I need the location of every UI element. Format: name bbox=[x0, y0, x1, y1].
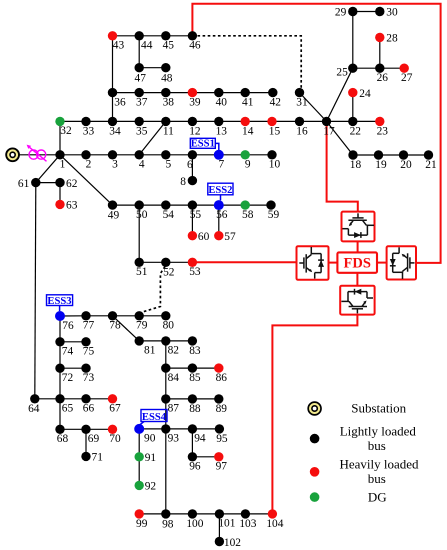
bus 11 bbox=[161, 117, 174, 138]
wire 58-59 bbox=[245, 204, 271, 206]
wire 17-18 bbox=[327, 121, 354, 155]
bus 8 bbox=[180, 176, 197, 188]
wire 31-17 bbox=[300, 93, 327, 122]
FDS box bbox=[337, 252, 377, 272]
transformer with OLTC arrow bbox=[27, 145, 47, 162]
bus 30 bbox=[375, 7, 398, 19]
svg-text:22: 22 bbox=[350, 125, 362, 137]
bus 84 bbox=[161, 363, 179, 384]
svg-text:19: 19 bbox=[375, 159, 387, 171]
wire 87-88 bbox=[166, 398, 193, 400]
bus 73 bbox=[81, 364, 94, 385]
wire 84-87 bbox=[165, 368, 167, 399]
wire 6-8 bbox=[191, 155, 193, 181]
wire 61-62 bbox=[36, 182, 60, 184]
wire 84-85 bbox=[166, 367, 193, 369]
svg-text:10: 10 bbox=[269, 159, 281, 171]
svg-text:29: 29 bbox=[335, 7, 347, 19]
wire 28-26 bbox=[379, 37, 381, 68]
bus 19 bbox=[374, 150, 387, 171]
bus 78 bbox=[108, 311, 121, 332]
bus 28 bbox=[375, 33, 398, 45]
svg-text:86: 86 bbox=[216, 372, 228, 384]
svg-text:71: 71 bbox=[92, 452, 104, 464]
svg-text:30: 30 bbox=[386, 7, 398, 19]
svg-text:89: 89 bbox=[216, 403, 228, 415]
bus 10 bbox=[267, 150, 280, 171]
wire 85-86 bbox=[192, 367, 218, 369]
bus 67 bbox=[108, 394, 121, 415]
wire 3-4 bbox=[113, 154, 140, 156]
wire 74-72 bbox=[59, 342, 61, 368]
bus 40 bbox=[214, 88, 227, 109]
wire 11-12 bbox=[166, 120, 193, 122]
svg-text:17: 17 bbox=[323, 125, 335, 137]
svg-text:75: 75 bbox=[83, 346, 95, 358]
bus 56 bbox=[214, 200, 228, 221]
bus 100 bbox=[186, 509, 203, 530]
wire 81-82 bbox=[139, 340, 166, 342]
bus 21 bbox=[424, 150, 437, 171]
wire 43-36 bbox=[112, 36, 114, 93]
converter VSC4 (right): red box bbox=[387, 246, 416, 279]
wire 94-95 bbox=[192, 428, 219, 430]
svg-text:4: 4 bbox=[139, 159, 145, 171]
wire substation-1 bbox=[19, 154, 61, 156]
svg-text:FDS: FDS bbox=[343, 255, 370, 271]
legend: DG bbox=[310, 490, 387, 505]
svg-text:31: 31 bbox=[296, 97, 308, 109]
bus 34 bbox=[108, 117, 121, 138]
bus 46 bbox=[188, 31, 201, 52]
wire 77-78 bbox=[86, 315, 113, 317]
wire 29-25 bbox=[352, 12, 354, 69]
svg-text:66: 66 bbox=[83, 403, 95, 415]
svg-text:93: 93 bbox=[168, 433, 180, 445]
wire 22-23 bbox=[353, 120, 380, 122]
svg-text:13: 13 bbox=[216, 125, 228, 137]
bus 86 bbox=[214, 363, 227, 384]
bus 104 bbox=[266, 509, 283, 530]
svg-text:48: 48 bbox=[161, 72, 173, 84]
svg-text:49: 49 bbox=[108, 210, 120, 222]
wire 16-17 bbox=[300, 120, 327, 122]
svg-text:64: 64 bbox=[28, 403, 40, 415]
bus 16 bbox=[295, 117, 308, 138]
wire 39-40 bbox=[192, 92, 218, 94]
wire 79-80 bbox=[139, 315, 166, 317]
svg-text:1: 1 bbox=[60, 159, 66, 171]
bus 35 bbox=[135, 117, 148, 138]
bus 45 bbox=[161, 31, 174, 52]
bus 61 bbox=[18, 178, 41, 190]
bus 92 bbox=[135, 481, 157, 493]
bus 58 bbox=[241, 200, 254, 221]
bus 63 bbox=[55, 200, 77, 212]
bus 50 bbox=[135, 200, 148, 221]
svg-text:23: 23 bbox=[377, 125, 389, 137]
svg-text:87: 87 bbox=[168, 403, 180, 415]
svg-text:78: 78 bbox=[109, 320, 121, 332]
converter VSC1 (top): red box bbox=[342, 212, 375, 242]
bus 32 bbox=[55, 117, 72, 137]
svg-text:56: 56 bbox=[216, 209, 228, 221]
bus 89 bbox=[214, 394, 227, 415]
red feeder: bus 17 to converter VSC1 (top) bbox=[327, 121, 358, 211]
wire 90-91 bbox=[138, 429, 140, 457]
wire 76-74 bbox=[59, 316, 61, 342]
wire 12-13 bbox=[192, 120, 218, 122]
svg-text:63: 63 bbox=[66, 200, 78, 212]
svg-text:60: 60 bbox=[198, 231, 210, 243]
red feeder: converter VSC3 (bottom) to bus 104 bbox=[272, 315, 357, 514]
svg-text:73: 73 bbox=[83, 372, 95, 384]
svg-text:21: 21 bbox=[425, 159, 437, 171]
wire 37-38 bbox=[139, 92, 166, 94]
wire 32-1 bbox=[59, 121, 61, 154]
svg-text:34: 34 bbox=[109, 125, 121, 137]
svg-text:94: 94 bbox=[194, 433, 206, 445]
svg-text:61: 61 bbox=[18, 178, 30, 190]
wire 44-47 bbox=[138, 36, 140, 68]
wire 69-71 bbox=[85, 429, 87, 456]
svg-text:92: 92 bbox=[145, 481, 157, 493]
svg-text:9: 9 bbox=[245, 159, 251, 171]
legend: substation symbol bbox=[308, 402, 321, 415]
wire 9-10 bbox=[245, 154, 272, 156]
wire 51-52 bbox=[139, 261, 166, 263]
svg-text:79: 79 bbox=[136, 320, 148, 332]
svg-text:76: 76 bbox=[62, 320, 74, 332]
svg-text:37: 37 bbox=[136, 97, 148, 109]
bus 27 bbox=[400, 63, 413, 84]
wire FDS-VSC3 bbox=[356, 273, 358, 286]
svg-text:39: 39 bbox=[189, 97, 201, 109]
svg-text:97: 97 bbox=[216, 461, 228, 473]
wire 43-44 bbox=[113, 35, 140, 37]
wire 38-39 bbox=[166, 92, 193, 94]
bus 96 bbox=[188, 452, 201, 473]
wire 78-79 bbox=[113, 315, 140, 317]
ESS1 bbox=[190, 138, 219, 150]
wire 103-104 bbox=[245, 513, 272, 515]
wire 13-14 bbox=[219, 120, 245, 122]
svg-text:bus: bus bbox=[368, 438, 386, 453]
bus 64 bbox=[28, 394, 40, 415]
bus 49 bbox=[108, 200, 120, 221]
bus 41 bbox=[241, 88, 254, 109]
bus 18 bbox=[348, 150, 361, 171]
svg-text:2: 2 bbox=[86, 159, 92, 171]
svg-text:ESS1: ESS1 bbox=[191, 139, 215, 150]
legend: lightly loaded bus bbox=[310, 423, 417, 453]
svg-text:54: 54 bbox=[163, 209, 175, 221]
svg-text:28: 28 bbox=[386, 33, 398, 45]
wire 34-35 bbox=[113, 120, 140, 122]
wire 82-83 bbox=[166, 340, 193, 342]
svg-text:88: 88 bbox=[189, 403, 201, 415]
svg-text:DG: DG bbox=[368, 490, 387, 505]
bus 99 bbox=[135, 509, 148, 530]
wire 93-98 bbox=[165, 429, 167, 514]
bus 6 bbox=[187, 150, 197, 171]
bus 24 bbox=[348, 88, 371, 100]
ESS2 bbox=[208, 183, 233, 200]
wire 90-93 bbox=[139, 428, 166, 430]
svg-text:85: 85 bbox=[189, 372, 201, 384]
converter VSC2 (left): IGBT symbol bbox=[299, 247, 324, 279]
wire 101-103 bbox=[219, 513, 245, 515]
bus 94 bbox=[188, 424, 206, 445]
wire 41-42 bbox=[245, 92, 273, 94]
bus 5 bbox=[161, 150, 171, 171]
wire FDS-VSC1 bbox=[357, 241, 359, 252]
svg-text:70: 70 bbox=[109, 433, 121, 445]
bus 103 bbox=[239, 509, 256, 530]
wire 1-2 bbox=[60, 154, 86, 156]
svg-text:32: 32 bbox=[60, 125, 72, 137]
bus 65 bbox=[55, 394, 73, 415]
svg-text:24: 24 bbox=[359, 88, 371, 100]
svg-text:55: 55 bbox=[190, 209, 202, 221]
bus 1 bbox=[55, 150, 65, 171]
svg-text:104: 104 bbox=[266, 518, 283, 530]
wire 4-11 bbox=[139, 121, 166, 154]
svg-text:38: 38 bbox=[163, 97, 175, 109]
svg-text:41: 41 bbox=[242, 97, 254, 109]
bus 101 bbox=[215, 509, 236, 530]
bus 31 bbox=[295, 88, 308, 109]
svg-text:103: 103 bbox=[239, 518, 256, 530]
wire 94-96 bbox=[191, 429, 193, 457]
wire 76-77 bbox=[60, 315, 86, 317]
bus 62 bbox=[55, 178, 77, 190]
bus 79 bbox=[135, 311, 148, 332]
wire 40-41 bbox=[219, 92, 245, 94]
wire 65-68 bbox=[59, 399, 61, 430]
svg-text:35: 35 bbox=[136, 125, 148, 137]
bus 43 bbox=[108, 31, 125, 52]
bus 97 bbox=[214, 452, 227, 473]
svg-text:44: 44 bbox=[141, 40, 153, 52]
svg-text:25: 25 bbox=[336, 67, 348, 79]
bus 93 bbox=[161, 424, 179, 445]
svg-text:72: 72 bbox=[62, 372, 74, 384]
bus 9 bbox=[241, 150, 251, 171]
wire 2-3 bbox=[86, 154, 113, 156]
svg-text:68: 68 bbox=[57, 433, 69, 445]
svg-text:16: 16 bbox=[296, 125, 308, 137]
bus 76 bbox=[55, 311, 74, 332]
converter VSC3 (bottom): IGBT symbol bbox=[341, 289, 373, 314]
svg-text:33: 33 bbox=[83, 125, 95, 137]
svg-text:3: 3 bbox=[112, 159, 118, 171]
svg-text:42: 42 bbox=[270, 97, 282, 109]
svg-text:58: 58 bbox=[242, 209, 254, 221]
bus 95 bbox=[215, 424, 228, 445]
svg-text:27: 27 bbox=[401, 72, 413, 84]
svg-text:7: 7 bbox=[218, 159, 224, 171]
svg-text:46: 46 bbox=[189, 40, 201, 52]
svg-text:99: 99 bbox=[136, 518, 148, 530]
wire 52-53 bbox=[166, 261, 193, 263]
bus 75 bbox=[81, 337, 94, 358]
wire 56-58 bbox=[219, 204, 245, 206]
bus 54 bbox=[161, 200, 174, 221]
bus 22 bbox=[348, 117, 361, 138]
bus 72 bbox=[55, 364, 73, 385]
svg-text:65: 65 bbox=[62, 403, 74, 415]
wire 87-93 bbox=[165, 399, 167, 429]
bus 57 bbox=[214, 231, 236, 243]
svg-text:50: 50 bbox=[136, 209, 148, 221]
legend: heavily loaded bus bbox=[310, 456, 419, 486]
svg-text:98: 98 bbox=[162, 518, 174, 530]
wire 49-50 bbox=[113, 204, 140, 206]
wire 45-46 bbox=[166, 35, 193, 37]
wire 61-64 bbox=[35, 183, 36, 399]
svg-text:81: 81 bbox=[144, 345, 156, 357]
wire 36-34 bbox=[112, 93, 114, 122]
red feeder: bus 46 to converter VSC4 (right) bbox=[192, 4, 440, 263]
wire 82-84 bbox=[165, 341, 167, 368]
bus 39 bbox=[188, 88, 201, 109]
bus 47 bbox=[135, 63, 147, 84]
tie line (dashed) 46-31 bbox=[192, 36, 301, 90]
wire 19-20 bbox=[379, 154, 404, 156]
svg-text:90: 90 bbox=[144, 433, 156, 445]
wire 44-45 bbox=[139, 35, 166, 37]
bus 7 bbox=[214, 150, 225, 171]
svg-text:12: 12 bbox=[189, 125, 201, 137]
bus 102 bbox=[215, 537, 242, 549]
svg-text:20: 20 bbox=[400, 159, 412, 171]
bus 82 bbox=[161, 336, 179, 357]
wire 47-48 bbox=[139, 67, 166, 69]
bus 4 bbox=[135, 150, 145, 171]
svg-text:6: 6 bbox=[187, 159, 193, 171]
svg-text:45: 45 bbox=[163, 40, 175, 52]
svg-text:96: 96 bbox=[189, 461, 201, 473]
bus 91 bbox=[135, 452, 157, 464]
wire 50-54 bbox=[139, 204, 166, 206]
wire 55-60 bbox=[191, 205, 193, 236]
red feeder: bus 53 to converter VSC2 (left) bbox=[192, 261, 296, 263]
svg-text:36: 36 bbox=[114, 96, 126, 108]
bus 33 bbox=[81, 117, 94, 138]
bus 80 bbox=[161, 311, 174, 332]
wire 93-94 bbox=[166, 428, 193, 430]
svg-text:bus: bus bbox=[368, 471, 386, 486]
bus 25 bbox=[336, 63, 357, 78]
bus 38 bbox=[161, 88, 174, 109]
bus 51 bbox=[135, 258, 148, 279]
wire 72-73 bbox=[60, 367, 86, 369]
svg-text:8: 8 bbox=[180, 176, 186, 188]
bus 71 bbox=[81, 452, 103, 464]
converter VSC3 (bottom): red box bbox=[340, 286, 374, 315]
bus 12 bbox=[188, 117, 201, 138]
wire 88-89 bbox=[192, 398, 218, 400]
svg-text:62: 62 bbox=[66, 178, 78, 190]
bus 23 bbox=[375, 117, 388, 138]
bus 70 bbox=[108, 425, 121, 446]
wire 4-5 bbox=[139, 154, 166, 156]
bus 55 bbox=[188, 200, 202, 221]
converter VSC4 (right): IGBT symbol bbox=[390, 247, 415, 279]
bus 3 bbox=[108, 150, 118, 171]
bus 90 bbox=[134, 424, 156, 445]
wire 18-19 bbox=[353, 154, 379, 156]
wire 25-17 bbox=[327, 68, 353, 121]
bus 59 bbox=[266, 200, 279, 221]
svg-text:Substation: Substation bbox=[351, 401, 406, 416]
svg-text:57: 57 bbox=[224, 231, 236, 243]
bus 26 bbox=[375, 63, 388, 84]
wire 69-70 bbox=[86, 428, 113, 430]
wire 72-65 bbox=[59, 368, 61, 399]
bus 85 bbox=[188, 363, 201, 384]
svg-text:ESS4: ESS4 bbox=[142, 412, 167, 423]
wire FDS-VSC2 bbox=[328, 262, 337, 264]
svg-text:67: 67 bbox=[109, 403, 121, 415]
wire 98-100 bbox=[166, 513, 193, 515]
wire 15-16 bbox=[272, 120, 300, 122]
bus 20 bbox=[399, 150, 412, 171]
wire 35-11 bbox=[139, 120, 166, 122]
bus 87 bbox=[161, 394, 179, 415]
ESS4 bbox=[139, 410, 167, 426]
svg-text:100: 100 bbox=[186, 518, 203, 530]
svg-text:43: 43 bbox=[113, 40, 125, 52]
wire 65-66 bbox=[60, 398, 86, 400]
bus 14 bbox=[241, 117, 254, 138]
bus 74 bbox=[55, 337, 73, 358]
bus 29 bbox=[335, 7, 358, 19]
bus 2 bbox=[81, 150, 91, 171]
svg-text:15: 15 bbox=[269, 125, 281, 137]
wire 25-26 bbox=[353, 67, 380, 69]
bus 98 bbox=[161, 509, 174, 530]
svg-text:14: 14 bbox=[242, 125, 254, 137]
wire 1-49 bbox=[60, 155, 113, 205]
bus 77 bbox=[81, 311, 94, 332]
bus 81 bbox=[135, 336, 156, 357]
svg-text:5: 5 bbox=[165, 159, 171, 171]
tie line (dashed) 52-79 bbox=[141, 267, 165, 313]
wire 1-61 bbox=[36, 155, 60, 183]
bus 53 bbox=[188, 258, 201, 279]
svg-text:11: 11 bbox=[163, 125, 174, 137]
wire 6-7 bbox=[192, 154, 218, 156]
svg-text:47: 47 bbox=[135, 72, 147, 84]
converter VSC1 (top): IGBT symbol bbox=[342, 213, 374, 238]
wire 64-65 bbox=[35, 398, 60, 400]
bus 68 bbox=[55, 425, 68, 446]
svg-text:59: 59 bbox=[268, 209, 280, 221]
svg-text:91: 91 bbox=[145, 452, 157, 464]
svg-text:74: 74 bbox=[62, 346, 74, 358]
svg-text:69: 69 bbox=[88, 433, 100, 445]
bus 69 bbox=[81, 425, 99, 446]
wire 29-30 bbox=[353, 11, 380, 13]
wire 62-63 bbox=[59, 183, 61, 205]
bus 37 bbox=[135, 88, 148, 109]
svg-text:18: 18 bbox=[350, 159, 362, 171]
wire 33-34 bbox=[86, 120, 113, 122]
wire 54-55 bbox=[166, 204, 193, 206]
svg-text:26: 26 bbox=[377, 72, 389, 84]
